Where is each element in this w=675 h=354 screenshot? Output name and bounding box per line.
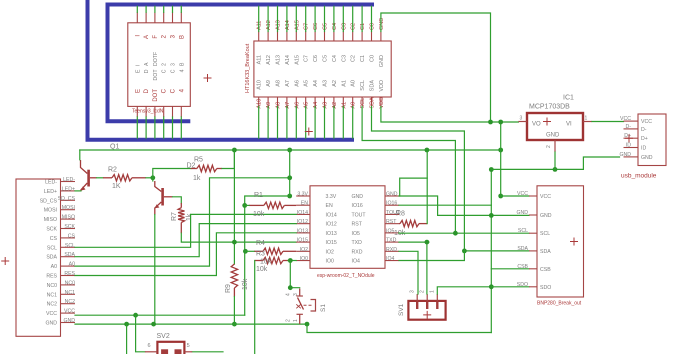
7-segment display DIS1: [128, 12, 191, 117]
svg-text:2: 2: [420, 290, 426, 293]
IC1 MCP1703DB: [518, 95, 592, 152]
svg-text:R2: R2: [108, 167, 117, 174]
svg-text:DOT: DOT: [153, 89, 159, 102]
wire IC1 GND pin: [554, 152, 556, 170]
wire node to R5: [153, 169, 191, 178]
svg-text:Teensy3_lcdN: Teensy3_lcdN: [132, 109, 164, 115]
junction rail IC1out: [498, 148, 503, 153]
junction GND a: [124, 322, 129, 327]
svg-text:1: 1: [585, 116, 588, 122]
svg-text:SCK: SCK: [64, 224, 75, 230]
svg-text:VCC: VCC: [517, 191, 528, 197]
label R1: [253, 192, 265, 218]
resistor R7: [178, 203, 184, 233]
svg-text:MISO: MISO: [62, 215, 75, 221]
svg-text:RXD: RXD: [386, 247, 397, 253]
wire IC1 VO node: [500, 122, 502, 196]
svg-text:IC1: IC1: [563, 95, 574, 102]
svg-text:GND: GND: [619, 152, 631, 158]
svg-text:VCC: VCC: [64, 309, 75, 315]
wire S1 to GND path: [307, 324, 491, 332]
svg-text:D-: D-: [641, 127, 647, 133]
svg-text:C1: C1: [360, 23, 366, 30]
wire Q2 collector: [152, 178, 154, 181]
wire EN node: [245, 204, 249, 206]
svg-text:10k: 10k: [253, 211, 265, 218]
wire R9 to GND row: [233, 297, 235, 325]
svg-text:B: B: [179, 35, 185, 39]
svg-text:MOSI: MOSI: [44, 208, 57, 214]
wire CSB branch: [491, 268, 529, 270]
label Q1: [110, 144, 119, 151]
svg-text:IO13: IO13: [326, 231, 337, 237]
resistor R2: [103, 175, 146, 181]
svg-text:LED-: LED-: [45, 180, 57, 186]
svg-text:A: A: [144, 62, 150, 66]
svg-text:GND: GND: [63, 318, 75, 324]
svg-text:GND: GND: [546, 133, 560, 139]
wire SCL to IO14: [75, 214, 296, 247]
svg-text:IO12: IO12: [326, 222, 337, 228]
svg-text:MCP1703DB: MCP1703DB: [529, 104, 570, 111]
svg-text:CSB: CSB: [517, 264, 528, 270]
svg-text:TXD: TXD: [352, 240, 363, 246]
wire HT SDA to BMP SDA: [372, 107, 465, 251]
svg-text:IO14: IO14: [326, 212, 337, 218]
svg-text:I: I: [135, 65, 141, 66]
resistor R3: [255, 257, 288, 263]
wire GND vertical: [490, 170, 492, 333]
wire SV2 pin5 east: [192, 351, 223, 353]
junction GND rail top: [489, 167, 494, 172]
wire VCC to SV2 pin6: [136, 315, 145, 352]
svg-text:E: E: [135, 69, 141, 73]
svg-text:NC0: NC0: [47, 283, 57, 289]
svg-text:A0: A0: [351, 80, 357, 87]
svg-text:A9: A9: [266, 102, 272, 109]
svg-text:VDD: VDD: [379, 80, 385, 92]
svg-text:A12: A12: [266, 20, 272, 30]
origin cross 7seg: [204, 74, 212, 82]
svg-text:A13: A13: [276, 20, 282, 30]
svg-text:IO16: IO16: [352, 203, 363, 209]
svg-text:C5: C5: [323, 23, 329, 30]
junction GND b: [151, 322, 156, 327]
svg-text:C4: C4: [332, 55, 338, 62]
junction BMP VCC: [498, 194, 503, 199]
svg-text:S1: S1: [320, 304, 327, 312]
svg-text:10k: 10k: [256, 266, 268, 273]
svg-text:C: C: [171, 88, 177, 93]
svg-text:LED+: LED+: [44, 189, 57, 195]
svg-text:C7: C7: [304, 55, 310, 62]
svg-text:C4: C4: [332, 23, 338, 30]
wire R7 to IO15 row: [181, 233, 296, 242]
module ESP-WROOM-02: [296, 186, 401, 279]
svg-text:A0: A0: [69, 262, 75, 268]
bus B2 (inner display bus): [108, 5, 375, 122]
junction TXD: [425, 240, 430, 245]
wire rail to R9 via IO15: [233, 150, 235, 264]
wire RES to IO13: [75, 233, 296, 276]
svg-text:1K: 1K: [112, 183, 121, 190]
junction R9 GND: [232, 322, 237, 327]
svg-text:A14: A14: [285, 20, 291, 30]
svg-text:A6: A6: [294, 80, 300, 87]
svg-text:SDA: SDA: [46, 255, 57, 261]
svg-text:RST: RST: [352, 222, 363, 228]
svg-text:A5: A5: [304, 102, 310, 109]
svg-text:DOT: DOT: [153, 69, 159, 81]
svg-text:2: 2: [546, 145, 552, 148]
junction IO0: [288, 258, 293, 263]
junction GND BMP: [489, 213, 494, 218]
wire IO2 node: [245, 250, 254, 252]
wire LED+ to Q1 emitter: [75, 190, 81, 192]
svg-text:GND: GND: [540, 213, 552, 219]
junction IC1 GND: [553, 167, 558, 172]
wire Q2 emitter to GND row: [154, 215, 156, 325]
svg-text:GND: GND: [641, 155, 653, 161]
wire SDO row: [491, 286, 529, 288]
svg-text:IO15: IO15: [326, 240, 337, 246]
header SV1: [398, 290, 446, 320]
junction A0/3V3: [287, 175, 292, 180]
svg-text:A1: A1: [341, 102, 347, 109]
junction rail R8: [425, 148, 430, 153]
svg-text:1: 1: [430, 290, 436, 293]
svg-text:3: 3: [293, 293, 299, 296]
svg-text:C3: C3: [341, 55, 347, 62]
label R5: [187, 157, 204, 183]
label R2: [108, 167, 121, 191]
svg-text:GND: GND: [516, 210, 528, 216]
junction EN node: [242, 203, 247, 208]
wire IO4 to SDA: [399, 251, 464, 261]
svg-text:GND: GND: [45, 321, 57, 327]
svg-text:A5: A5: [304, 80, 310, 87]
svg-text:SCL: SCL: [65, 243, 75, 249]
resistor R9: [231, 264, 237, 297]
wire R5 to rail: [222, 150, 234, 169]
label R8: [394, 211, 406, 238]
wire rail to ESP 3.3V: [289, 150, 291, 196]
svg-text:C0: C0: [370, 23, 376, 30]
svg-text:IO0: IO0: [300, 256, 308, 262]
svg-text:1: 1: [293, 319, 299, 322]
wire TXD to SV1 pin2: [399, 242, 429, 294]
svg-text:10k: 10k: [260, 259, 272, 266]
svg-text:SCL: SCL: [540, 231, 550, 237]
svg-text:SDO: SDO: [517, 282, 528, 288]
svg-text:SCL: SCL: [47, 245, 57, 251]
resistor R8: [399, 220, 427, 226]
wire GND row: [75, 323, 307, 325]
svg-text:NC1: NC1: [65, 290, 75, 296]
svg-text:SDA: SDA: [370, 80, 376, 92]
svg-text:SCL: SCL: [360, 98, 366, 109]
svg-text:2: 2: [162, 63, 168, 66]
svg-text:D+: D+: [641, 136, 648, 142]
svg-text:C: C: [171, 69, 177, 73]
wire 3.3V row west: [245, 196, 290, 315]
svg-text:3: 3: [410, 290, 416, 293]
svg-text:DOTF: DOTF: [153, 52, 159, 66]
svg-text:3: 3: [171, 63, 177, 66]
svg-text:BNP280_Break_out: BNP280_Break_out: [537, 301, 582, 307]
svg-text:A8: A8: [276, 80, 282, 87]
svg-text:SDA: SDA: [517, 246, 528, 252]
svg-text:A7: A7: [285, 102, 291, 109]
svg-text:GND: GND: [386, 192, 398, 198]
svg-text:R8: R8: [396, 211, 405, 218]
svg-text:A3: A3: [323, 80, 329, 87]
svg-text:A: A: [144, 35, 150, 39]
junction R2/R5/Q2: [150, 175, 155, 180]
svg-text:A1: A1: [341, 80, 347, 87]
junction rail ESP3V3: [287, 148, 292, 153]
svg-text:CS: CS: [50, 236, 58, 242]
svg-text:GND: GND: [352, 194, 364, 200]
svg-text:TOUT: TOUT: [352, 212, 367, 218]
module usb_module: [619, 114, 666, 180]
svg-text:A6: A6: [294, 102, 300, 109]
wire R2 to node: [146, 177, 153, 179]
svg-text:6: 6: [148, 343, 151, 349]
svg-text:3.3V: 3.3V: [326, 194, 337, 200]
wire RXD to SV1 pin3: [399, 251, 418, 294]
wire IO16 row: [399, 204, 491, 206]
svg-text:IO12: IO12: [297, 219, 308, 225]
svg-text:4: 4: [286, 293, 292, 296]
junction SCL: [453, 231, 458, 236]
svg-text:10k: 10k: [242, 278, 249, 290]
module BNP280_Break_out: [516, 186, 583, 307]
svg-text:A9: A9: [266, 80, 272, 87]
svg-text:MISO: MISO: [44, 217, 57, 223]
svg-text:SD_CS: SD_CS: [58, 196, 76, 202]
svg-text:IO0: IO0: [326, 259, 334, 265]
wire VCC row: [75, 314, 245, 316]
label R3 values: [256, 259, 272, 274]
svg-text:LED+: LED+: [62, 186, 75, 192]
svg-text:A15: A15: [294, 20, 300, 30]
svg-text:2: 2: [286, 319, 292, 322]
wire Q1 collector to rail: [79, 150, 81, 160]
svg-text:C2: C2: [351, 23, 357, 30]
svg-text:LED-: LED-: [63, 177, 75, 183]
svg-text:1k: 1k: [193, 175, 201, 182]
svg-text:RES: RES: [64, 271, 75, 277]
svg-text:CSB: CSB: [540, 267, 551, 273]
svg-text:A10: A10: [257, 80, 263, 90]
svg-text:IO13: IO13: [297, 228, 308, 234]
wire SV1 pin1 to SDO: [437, 287, 491, 294]
label R7: [171, 212, 193, 221]
wire A0 riser: [75, 178, 290, 266]
junction GND S1: [305, 322, 310, 327]
svg-text:A11: A11: [257, 55, 263, 64]
junction S1 node: [288, 285, 293, 290]
wire ESP GND L: [400, 178, 428, 196]
svg-text:3: 3: [520, 116, 523, 122]
svg-text:VDD: VDD: [379, 97, 385, 109]
svg-text:CS: CS: [68, 233, 76, 239]
svg-text:R4: R4: [256, 240, 265, 247]
svg-text:C1: C1: [360, 55, 366, 62]
svg-text:A10: A10: [257, 99, 263, 109]
label R4: [256, 240, 265, 258]
svg-text:C: C: [162, 69, 168, 73]
svg-text:C6: C6: [313, 55, 319, 62]
wires 7seg pins to buses: [137, 6, 181, 138]
wire GND drop left: [126, 324, 128, 354]
svg-text:E: E: [135, 89, 141, 93]
wire 3.3V rail: [80, 149, 501, 151]
wire BMP VCC row: [501, 195, 529, 197]
svg-text:VCC: VCC: [540, 194, 551, 200]
svg-text:A2: A2: [332, 80, 338, 87]
svg-text:GND: GND: [379, 55, 385, 67]
wire ESP GND jog: [399, 196, 529, 215]
svg-text:A2: A2: [332, 102, 338, 109]
svg-text:IO5: IO5: [352, 231, 360, 237]
wire IC1 VI to USB VCC: [592, 121, 624, 123]
svg-text:C: C: [162, 88, 168, 93]
wire R3 drop: [254, 261, 256, 354]
switch S1: [286, 289, 328, 325]
junction VO drop: [498, 120, 503, 125]
svg-text:D: D: [144, 69, 150, 73]
svg-text:A11: A11: [257, 21, 263, 30]
svg-text:A12: A12: [266, 55, 272, 65]
resistor R5: [191, 165, 222, 171]
svg-text:SDA: SDA: [64, 252, 75, 258]
svg-text:C6: C6: [313, 23, 319, 30]
IC HT16K33_Breakout: [245, 18, 391, 109]
junction VCC SV2: [133, 313, 138, 318]
svg-text:NC2: NC2: [47, 302, 57, 308]
svg-text:3.3V: 3.3V: [297, 192, 308, 198]
wire IO5 SCL row: [399, 232, 529, 234]
svg-text:RES: RES: [46, 274, 57, 280]
svg-text:A15: A15: [294, 55, 300, 65]
transistor Q1: [81, 160, 97, 191]
svg-text:IO2: IO2: [300, 247, 308, 253]
svg-text:SV2: SV2: [157, 333, 170, 340]
wire R3 to IO0: [288, 260, 296, 262]
svg-text:SCL: SCL: [518, 228, 528, 234]
svg-text:C0: C0: [370, 55, 376, 62]
resistor R1: [249, 202, 296, 208]
svg-text:SCL: SCL: [360, 80, 366, 91]
bus B1 (outer display bus): [88, 0, 355, 140]
svg-text:SCK: SCK: [46, 227, 57, 233]
wire SDA to IO12: [75, 224, 296, 257]
svg-text:IO2: IO2: [326, 249, 334, 255]
svg-text:C2: C2: [351, 55, 357, 62]
junction IO2 node: [243, 249, 248, 254]
svg-text:A3: A3: [323, 102, 329, 109]
wire IO0 to S1: [290, 261, 299, 288]
svg-text:A14: A14: [285, 55, 291, 65]
resistor R4: [254, 248, 296, 254]
svg-text:R3: R3: [256, 251, 265, 258]
svg-text:VO: VO: [532, 122, 541, 128]
svg-text:EN: EN: [326, 203, 333, 209]
svg-text:VI: VI: [566, 122, 572, 128]
junction rail R5: [232, 148, 237, 153]
svg-text:SDO: SDO: [540, 285, 551, 291]
wire Q2 base to R7: [173, 197, 182, 203]
svg-text:A7: A7: [285, 80, 291, 87]
svg-text:D-: D-: [626, 124, 632, 130]
svg-text:SD_CS: SD_CS: [40, 198, 58, 204]
svg-text:D: D: [144, 88, 150, 93]
svg-text:IO4: IO4: [352, 259, 360, 265]
origin cross connector: [1, 257, 9, 265]
svg-text:SDA: SDA: [540, 249, 551, 255]
junction IO15: [232, 240, 237, 245]
svg-text:TXD: TXD: [386, 238, 397, 244]
wire HT VDD to IC1 VO: [381, 107, 519, 123]
svg-text:NC1: NC1: [47, 292, 57, 298]
wire SDA row to BMP: [464, 250, 529, 252]
wires HT16K33 pins to buses: [259, 6, 372, 138]
svg-text:IO4: IO4: [386, 256, 394, 262]
svg-text:R7: R7: [171, 212, 178, 221]
svg-text:usb_module: usb_module: [621, 173, 657, 180]
svg-text:VCC: VCC: [620, 116, 631, 122]
svg-text:B: B: [179, 62, 185, 66]
svg-text:VCC: VCC: [641, 119, 652, 125]
junction SDO: [489, 284, 494, 289]
svg-text:A4: A4: [313, 102, 319, 109]
svg-text:ID: ID: [626, 143, 631, 149]
svg-text:VCC: VCC: [46, 311, 57, 317]
svg-text:C7: C7: [304, 23, 310, 30]
connector LCD1: [16, 177, 76, 336]
svg-text:GND: GND: [379, 18, 385, 30]
svg-text:5: 5: [187, 343, 190, 349]
svg-text:esp-wroom-02_T_NOdule: esp-wroom-02_T_NOdule: [317, 273, 375, 279]
transistor Q2: [155, 181, 173, 215]
svg-text:EN: EN: [301, 201, 308, 207]
svg-text:NC0: NC0: [65, 280, 75, 286]
svg-text:D2: D2: [187, 163, 196, 170]
svg-text:HT16K33_BreaKout: HT16K33_BreaKout: [245, 43, 251, 93]
svg-text:RXD: RXD: [352, 249, 363, 255]
svg-text:IO14: IO14: [297, 210, 308, 216]
wire HT GND to IC1 VO: [381, 13, 491, 122]
junction ESP 3V3: [287, 194, 292, 199]
svg-text:R9: R9: [225, 284, 232, 293]
wire HT SCL to BMP SCL: [362, 107, 455, 234]
svg-text:R1: R1: [254, 192, 263, 199]
wire GND rail: [491, 157, 619, 169]
svg-text:ID: ID: [641, 146, 646, 152]
svg-text:MOSI: MOSI: [62, 205, 75, 211]
svg-text:A13: A13: [276, 55, 282, 65]
junction VDD/HTGND/IC1: [488, 120, 493, 125]
svg-text:NC2: NC2: [65, 299, 75, 305]
junction SDA: [462, 249, 467, 254]
svg-text:RST: RST: [386, 219, 397, 225]
svg-text:A0: A0: [351, 102, 357, 109]
svg-text:A8: A8: [276, 102, 282, 109]
svg-text:A0: A0: [51, 264, 57, 270]
label R9: [225, 278, 249, 293]
